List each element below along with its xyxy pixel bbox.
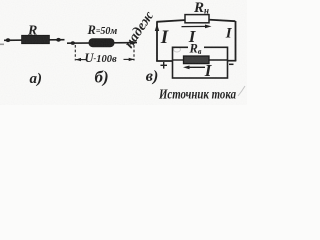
dimension line left segment with arrow	[76, 59, 86, 61]
plus terminal	[161, 62, 168, 69]
outer loop top wire	[157, 20, 236, 22]
connector wire right to source box	[228, 60, 237, 62]
wire	[67, 42, 137, 45]
dimension line right segment with arrow	[124, 58, 134, 60]
internal wire left	[173, 59, 185, 61]
terminal dot right	[129, 41, 134, 44]
bleed-through pencil mark bottom-right	[238, 86, 245, 96]
internal wire right	[209, 59, 228, 61]
source box	[173, 47, 228, 78]
resistor body (pill)	[89, 38, 115, 47]
current arrow under Rn	[182, 25, 209, 27]
dashed extension line right	[133, 45, 135, 61]
resistor R (filled body)	[22, 35, 50, 44]
terminal dot right	[56, 38, 61, 42]
white gap behind Rv label	[188, 44, 204, 52]
connector wire left to source box	[156, 60, 172, 62]
outer loop right wire	[235, 21, 237, 61]
resistor Rn (load, open rect on top wire)	[185, 15, 209, 23]
outer loop left wire	[156, 22, 158, 62]
current arrow inside source (pointing left)	[186, 66, 205, 68]
paper noise	[0, 0, 247, 105]
bleed-through speck left edge	[0, 44, 4, 46]
dashed extension line left	[74, 45, 76, 61]
minus terminal	[229, 63, 234, 65]
wire	[4, 39, 65, 42]
bleed-through faint ring in source box	[174, 47, 181, 52]
resistor Rv body	[184, 56, 210, 64]
up arrowhead on left wire	[155, 24, 159, 32]
terminal dot left	[6, 38, 11, 42]
terminal dot left	[71, 41, 76, 45]
